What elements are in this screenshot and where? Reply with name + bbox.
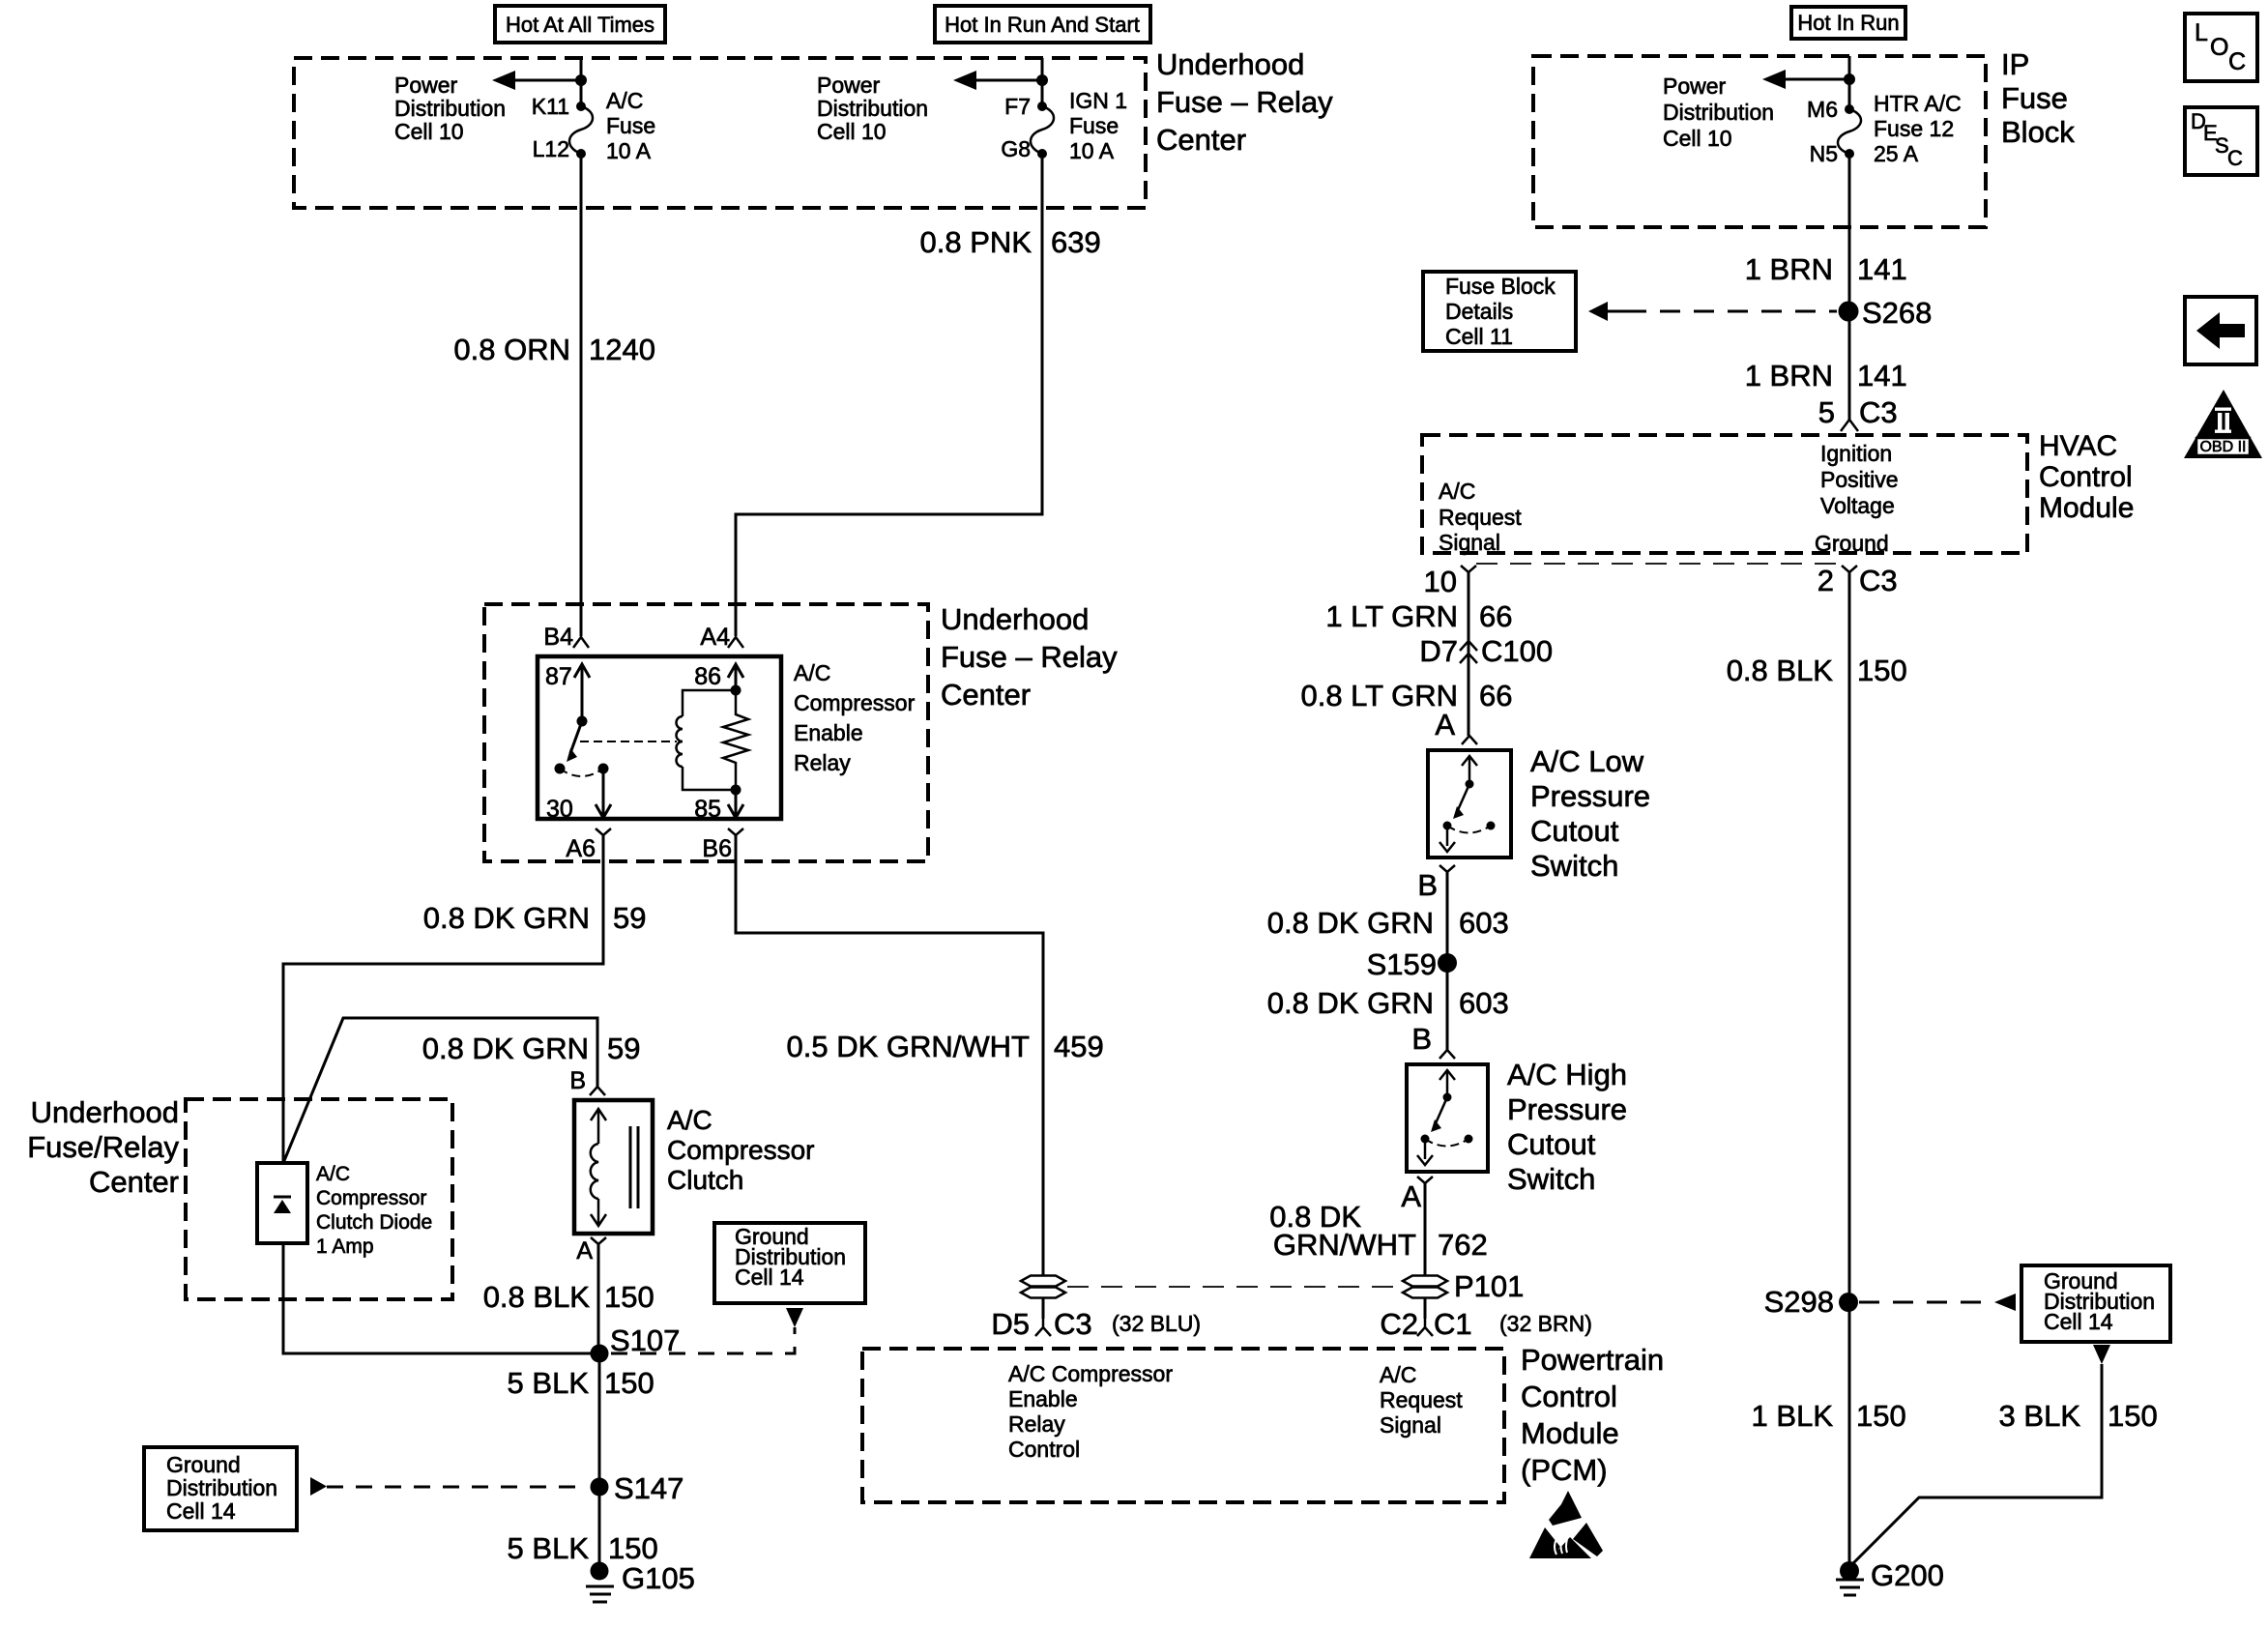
svg-text:Hot In Run: Hot In Run — [1797, 11, 1899, 35]
high switch interior — [1417, 1070, 1473, 1165]
wire 0.5 DK GRN/WHT 459 from B6 to D5 — [736, 835, 1043, 1275]
svg-text:C: C — [2227, 146, 2243, 170]
label A/C Compressor Clutch — [667, 1105, 814, 1195]
module box Underhood Fuse-Relay Center (dashed) — [294, 58, 1146, 208]
svg-text:Cutout: Cutout — [1507, 1127, 1596, 1161]
svg-text:C2: C2 — [1380, 1307, 1418, 1341]
dashed arrow S268 to fuse block details — [1588, 302, 1837, 321]
svg-text:Cell 10: Cell 10 — [817, 119, 887, 144]
wire from box top to fuse K11 — [580, 58, 583, 106]
wire 1 BRN 141 S268 to HVAC — [1745, 359, 1907, 392]
svg-text:Compressor: Compressor — [316, 1187, 426, 1209]
dashed wire S107 to ground distribution — [611, 1327, 795, 1353]
svg-text:A6: A6 — [566, 835, 596, 862]
svg-text:1 BRN: 1 BRN — [1745, 252, 1833, 286]
svg-text:0.8 DK GRN: 0.8 DK GRN — [1267, 986, 1434, 1020]
switch S2 A/C High Pressure Cutout Switch box — [1407, 1064, 1488, 1172]
svg-text:A/C Compressor: A/C Compressor — [1008, 1361, 1173, 1386]
svg-text:A/C: A/C — [1380, 1362, 1416, 1387]
diode symbol — [274, 1197, 291, 1213]
wire 0.8 BLK 150 HVAC pin2 to S298 — [1848, 572, 1851, 1571]
label A/C Low Pressure Cutout Switch — [1530, 744, 1650, 883]
pin label A/C Compressor Enable Relay Control — [1008, 1361, 1173, 1462]
svg-text:10 A: 10 A — [1069, 138, 1115, 163]
dashed wire S298 to ground distribution — [1859, 1294, 2016, 1311]
wire 0.8 DK GRN/WHT 762 to P101 — [1424, 1183, 1427, 1275]
svg-text:Cutout: Cutout — [1530, 814, 1619, 848]
connector pin A6 — [566, 829, 611, 862]
svg-text:Positive: Positive — [1820, 467, 1899, 492]
svg-text:C: C — [2228, 48, 2246, 75]
svg-text:C100: C100 — [1481, 634, 1553, 668]
clutch plates — [630, 1126, 638, 1208]
svg-text:59: 59 — [607, 1032, 640, 1065]
svg-text:HTR A/C: HTR A/C — [1874, 91, 1962, 116]
clutch M1 A/C Compressor Clutch box — [574, 1100, 653, 1234]
module box HVAC Control Module (dashed) — [1422, 435, 2027, 553]
svg-text:1 BRN: 1 BRN — [1745, 359, 1833, 392]
svg-text:2: 2 — [1817, 564, 1834, 597]
svg-text:Details: Details — [1445, 299, 1513, 324]
svg-text:Cell 14: Cell 14 — [735, 1265, 804, 1290]
fuse A/C Fuse 10A (K11/L12) — [532, 88, 655, 163]
wire diode to S107 — [283, 1243, 599, 1353]
wire 0.8 BLK 150 clutch to S107 — [597, 1244, 600, 1353]
node S147 — [591, 1471, 684, 1505]
svg-text:Clutch: Clutch — [667, 1165, 743, 1195]
svg-text:A4: A4 — [700, 624, 730, 651]
svg-text:Distribution: Distribution — [1663, 100, 1774, 125]
ground G105 — [586, 1561, 695, 1602]
relay switch armature — [555, 716, 609, 777]
svg-text:0.8 BLK: 0.8 BLK — [1727, 654, 1834, 687]
svg-text:Request: Request — [1380, 1387, 1463, 1412]
ground G200 — [1836, 1558, 1944, 1595]
wire arrow to Power Distribution (IP) — [1780, 78, 1849, 81]
svg-text:N5: N5 — [1810, 141, 1838, 166]
svg-text:Power: Power — [1663, 73, 1727, 99]
diode D1 A/C Compressor Clutch Diode box — [257, 1163, 307, 1243]
svg-text:Cell 11: Cell 11 — [1445, 324, 1513, 349]
svg-text:0.8 DK GRN: 0.8 DK GRN — [423, 901, 590, 935]
svg-text:P101: P101 — [1454, 1269, 1524, 1303]
label Underhood Fuse/Relay Center — [27, 1095, 179, 1199]
svg-text:Signal: Signal — [1380, 1412, 1441, 1438]
connector pin B4 — [543, 624, 589, 651]
svg-text:59: 59 — [613, 901, 646, 935]
svg-text:0.5 DK GRN/WHT: 0.5 DK GRN/WHT — [787, 1030, 1031, 1063]
arrow from ground distribution box down (right) — [2093, 1345, 2110, 1364]
label A/C Compressor Enable Relay — [794, 660, 916, 775]
arrow from ground distribution box down — [786, 1308, 803, 1327]
label HVAC Control Module — [2039, 430, 2134, 524]
clutch coil with arrows — [591, 1109, 606, 1226]
svg-text:Cell 14: Cell 14 — [166, 1498, 236, 1524]
svg-text:Control: Control — [2039, 461, 2133, 493]
connector pin B6 — [702, 829, 743, 862]
label Power Distribution Cell 10 — [394, 73, 506, 144]
svg-text:Fuse – Relay: Fuse – Relay — [941, 640, 1118, 674]
svg-text:Underhood: Underhood — [31, 1095, 179, 1129]
module box IP Fuse Block (dashed) — [1533, 56, 1986, 227]
svg-text:Distribution: Distribution — [166, 1475, 277, 1500]
svg-text:762: 762 — [1438, 1228, 1488, 1262]
svg-text:B4: B4 — [543, 624, 573, 651]
switch S1 A/C Low Pressure Cutout Switch box — [1428, 750, 1511, 858]
relay pin 86 arrow — [694, 663, 743, 690]
fuse IGN 1 Fuse 10A (F7/G8) — [1001, 88, 1127, 163]
svg-text:C3: C3 — [1859, 395, 1898, 429]
svg-text:C1: C1 — [1434, 1307, 1472, 1341]
node S159 — [1367, 947, 1457, 981]
pin label Ignition Positive Voltage / Ground — [1815, 441, 1899, 556]
svg-text:(PCM): (PCM) — [1521, 1453, 1608, 1487]
svg-text:GRN/WHT: GRN/WHT — [1273, 1228, 1416, 1262]
svg-text:Hot At All Times: Hot At All Times — [506, 13, 654, 37]
svg-text:A: A — [1401, 1179, 1421, 1213]
label Powertrain Control Module (PCM) — [1521, 1343, 1664, 1487]
wire 0.8 ORN 1240 from L12 to relay B4 — [580, 154, 583, 636]
svg-text:B: B — [1411, 1022, 1432, 1056]
label A/C Compressor Clutch Diode 1 Amp — [316, 1163, 432, 1258]
svg-text:Control: Control — [1521, 1380, 1617, 1413]
connector pin 2 C3 — [1817, 564, 1898, 597]
svg-text:0.8 DK GRN: 0.8 DK GRN — [422, 1032, 589, 1065]
ground distribution box (left-bottom of clutch) — [714, 1223, 865, 1303]
label box Hot In Run — [1791, 7, 1905, 39]
svg-text:Underhood: Underhood — [941, 602, 1089, 636]
label IP Fuse Block — [2001, 47, 2075, 149]
legend icon back-arrow box — [2185, 297, 2256, 364]
connector pin 5 C3 — [1818, 395, 1898, 431]
wire from box top to fuse F7 — [1041, 58, 1044, 106]
svg-text:86: 86 — [694, 663, 721, 690]
svg-text:Request: Request — [1439, 505, 1522, 530]
grommet P101 — [1403, 1269, 1524, 1303]
svg-text:IP: IP — [2001, 47, 2029, 81]
wire 5 BLK 150 S147 to G105 — [598, 1487, 601, 1571]
svg-text:150: 150 — [604, 1366, 654, 1400]
svg-text:Hot In Run And Start: Hot In Run And Start — [945, 13, 1140, 37]
wire arrow to Power Distribution 2 — [963, 79, 1042, 82]
ground distribution box (far left) — [144, 1447, 297, 1530]
svg-text:Center: Center — [89, 1165, 179, 1199]
svg-text:Compressor: Compressor — [667, 1135, 814, 1165]
connector D7 C100 — [1419, 634, 1553, 668]
wire branch diode to clutch B — [283, 1018, 597, 1163]
wire 1 LT GRN 66 from pin 10 — [1468, 572, 1470, 736]
svg-text:10: 10 — [1424, 565, 1457, 598]
svg-text:Module: Module — [1521, 1416, 1619, 1450]
svg-text:B6: B6 — [702, 835, 732, 862]
svg-text:L12: L12 — [533, 136, 569, 161]
connector pin 10 — [1424, 565, 1476, 598]
legend icon DESC box — [2185, 107, 2257, 175]
svg-text:Cell 10: Cell 10 — [1663, 126, 1732, 151]
svg-text:Fuse 12: Fuse 12 — [1874, 116, 1954, 141]
svg-text:A/C High: A/C High — [1507, 1058, 1627, 1091]
svg-text:Pressure: Pressure — [1507, 1092, 1627, 1126]
wire 0.8 DK GRN 603 to S159 — [1446, 872, 1449, 1050]
ground distribution box (right) — [2021, 1265, 2170, 1342]
svg-text:Ground: Ground — [166, 1452, 241, 1477]
svg-text:66: 66 — [1479, 599, 1512, 633]
svg-text:Pressure: Pressure — [1530, 779, 1650, 813]
svg-text:0.8 BLK: 0.8 BLK — [483, 1280, 591, 1314]
connector pin A (clutch) — [576, 1237, 606, 1265]
module box Powertrain Control Module (dashed) — [862, 1349, 1504, 1502]
svg-text:0.8 ORN: 0.8 ORN — [453, 333, 570, 366]
svg-text:1240: 1240 — [589, 333, 655, 366]
fuse HTR A/C Fuse 12 25A (M6/N5) — [1807, 91, 1962, 166]
svg-text:Compressor: Compressor — [794, 690, 916, 715]
wire 0.8 LT GRN 66 — [1300, 679, 1512, 712]
label Underhood Fuse-Relay Center — [1156, 47, 1333, 157]
svg-text:1 BLK: 1 BLK — [1752, 1399, 1834, 1433]
svg-text:Ignition: Ignition — [1820, 441, 1892, 466]
svg-text:A/C: A/C — [794, 660, 830, 685]
wire 5 BLK 150 S107 to S147 — [598, 1353, 601, 1487]
relay U1 A/C Compressor Enable Relay box — [538, 656, 781, 819]
connector pin B (high switch) — [1411, 1022, 1455, 1059]
svg-text:639: 639 — [1051, 225, 1101, 259]
pin label A/C Request Signal (PCM) — [1380, 1362, 1463, 1438]
pin label A/C Request Signal (HVAC) — [1439, 479, 1522, 555]
legend icon LOC box — [2185, 14, 2257, 81]
svg-text:(32 BRN): (32 BRN) — [1499, 1311, 1592, 1336]
svg-text:HVAC: HVAC — [2039, 430, 2117, 462]
svg-text:Center: Center — [1156, 123, 1246, 157]
svg-text:Center: Center — [941, 678, 1031, 712]
svg-text:B: B — [1417, 868, 1438, 902]
svg-text:C3: C3 — [1859, 564, 1898, 597]
svg-text:(32 BLU): (32 BLU) — [1112, 1311, 1201, 1336]
connector pin A4 — [700, 624, 743, 651]
label Power Distribution Cell 10 (2) — [817, 73, 928, 144]
module box Underhood Fuse-Relay Center around relay (dashed) — [484, 604, 928, 861]
svg-text:141: 141 — [1857, 252, 1907, 286]
svg-text:S298: S298 — [1764, 1285, 1834, 1319]
svg-text:G200: G200 — [1871, 1558, 1944, 1592]
svg-text:S147: S147 — [614, 1471, 683, 1505]
connector pin B (low switch) — [1417, 865, 1455, 902]
svg-text:Control: Control — [1008, 1437, 1080, 1462]
svg-text:C3: C3 — [1054, 1307, 1092, 1341]
svg-text:Switch: Switch — [1507, 1162, 1595, 1196]
svg-text:Cell 10: Cell 10 — [394, 119, 464, 144]
svg-text:Module: Module — [2039, 492, 2134, 524]
svg-text:B: B — [569, 1067, 586, 1094]
label Power Distribution Cell 10 (IP) — [1663, 73, 1774, 151]
svg-text:S159: S159 — [1367, 947, 1437, 981]
fuse block details box — [1423, 272, 1576, 351]
svg-text:Voltage: Voltage — [1820, 493, 1895, 518]
grommet pass-through (left) — [1021, 1276, 1065, 1298]
svg-text:Cell 14: Cell 14 — [2044, 1309, 2113, 1334]
wire below grommet to PCM D5 — [1042, 1298, 1045, 1319]
label Underhood Fuse-Relay Center (relay) — [941, 602, 1118, 712]
label box Hot In Run And Start — [935, 6, 1150, 43]
relay pin 87 arrow — [545, 663, 590, 721]
relay resistor — [723, 690, 748, 790]
svg-text:Fuse: Fuse — [1069, 113, 1119, 138]
wire 3 BLK 150 to G200 — [1849, 1364, 2102, 1567]
svg-text:603: 603 — [1459, 906, 1509, 940]
relay coil — [677, 685, 741, 796]
svg-text:Power: Power — [394, 73, 458, 98]
svg-text:Relay: Relay — [1008, 1411, 1065, 1437]
svg-text:0.8 PNK: 0.8 PNK — [920, 225, 1032, 259]
svg-text:Underhood: Underhood — [1156, 47, 1304, 81]
svg-text:D5: D5 — [991, 1307, 1030, 1341]
low switch interior — [1439, 756, 1496, 852]
svg-text:603: 603 — [1459, 986, 1509, 1020]
wire arrow to Power Distribution — [502, 79, 581, 82]
svg-text:G8: G8 — [1001, 136, 1031, 161]
wire 0.8 DK GRN 603 to high switch — [1267, 986, 1509, 1020]
svg-text:25 A: 25 A — [1874, 141, 1919, 166]
ESD sensitivity symbol — [1529, 1491, 1603, 1558]
svg-text:Power: Power — [817, 73, 881, 98]
wire from box top to fuse M6 — [1848, 56, 1851, 109]
svg-text:M6: M6 — [1807, 97, 1838, 122]
svg-text:A/C: A/C — [1439, 479, 1475, 504]
svg-text:66: 66 — [1479, 679, 1512, 712]
svg-text:F7: F7 — [1004, 94, 1031, 119]
svg-text:1 Amp: 1 Amp — [316, 1236, 374, 1258]
svg-text:Clutch Diode: Clutch Diode — [316, 1211, 432, 1234]
svg-text:85: 85 — [694, 796, 721, 823]
svg-text:5 BLK: 5 BLK — [508, 1366, 590, 1400]
node junction at arrow — [575, 74, 587, 86]
wire 0.8 DK GRN 59 from A6 — [283, 835, 603, 1163]
wire 1 BRN 141 to S268 — [1848, 154, 1851, 420]
svg-text:A: A — [1435, 708, 1455, 741]
connector pin D5 C3 — [991, 1307, 1201, 1341]
svg-text:1 LT GRN: 1 LT GRN — [1325, 599, 1458, 633]
svg-text:Signal: Signal — [1439, 530, 1500, 555]
svg-text:30: 30 — [546, 796, 573, 823]
svg-text:Relay: Relay — [794, 750, 851, 775]
svg-text:150: 150 — [1857, 654, 1907, 687]
relay pin 85 arrow — [694, 790, 743, 823]
svg-text:5 BLK: 5 BLK — [508, 1531, 590, 1565]
dashed wire to S147 — [327, 1486, 588, 1489]
node S107 — [591, 1323, 681, 1363]
svg-text:150: 150 — [604, 1280, 654, 1314]
svg-text:Enable: Enable — [794, 720, 863, 745]
svg-text:A/C: A/C — [316, 1163, 350, 1185]
node S298 — [1764, 1285, 1858, 1319]
module box Underhood Fuse/Relay Center (diode, dashed) — [186, 1099, 452, 1299]
svg-text:Ground: Ground — [1815, 531, 1889, 556]
svg-text:150: 150 — [2108, 1399, 2158, 1433]
wire below P101 to PCM C1 — [1424, 1298, 1427, 1319]
svg-text:Fuse: Fuse — [2001, 81, 2068, 115]
node S268 — [1839, 296, 1933, 330]
svg-text:Powertrain: Powertrain — [1521, 1343, 1664, 1377]
svg-text:Switch: Switch — [1530, 849, 1618, 883]
svg-text:G105: G105 — [622, 1561, 695, 1595]
svg-text:Fuse/Relay: Fuse/Relay — [27, 1130, 179, 1164]
label A/C High Pressure Cutout Switch — [1507, 1058, 1627, 1196]
relay pin 30 arrow — [546, 769, 611, 823]
connector pin A (high switch) — [1401, 1177, 1433, 1213]
svg-text:O: O — [2210, 34, 2228, 61]
svg-text:Distribution: Distribution — [394, 96, 506, 121]
relay internal dashed link — [580, 741, 677, 742]
svg-text:150: 150 — [608, 1531, 658, 1565]
wire 0.8 PNK 639 from G8 to relay A4 — [736, 154, 1042, 636]
legend icon OBD II triangle — [2184, 390, 2262, 458]
wire 1 BLK 150 S298 to G200 — [1752, 1399, 1906, 1433]
svg-text:87: 87 — [545, 663, 572, 690]
svg-text:OBD II: OBD II — [2199, 439, 2246, 455]
svg-text:A/C Low: A/C Low — [1530, 744, 1644, 778]
svg-text:Fuse Block: Fuse Block — [1445, 274, 1556, 299]
svg-text:A: A — [576, 1237, 593, 1265]
svg-text:10 A: 10 A — [606, 138, 652, 163]
svg-text:Enable: Enable — [1008, 1386, 1078, 1411]
thin dashed link pin10-pin2 — [1476, 563, 1842, 565]
svg-text:IGN 1: IGN 1 — [1069, 88, 1127, 113]
svg-text:L: L — [2195, 19, 2208, 46]
svg-text:0.8 DK GRN: 0.8 DK GRN — [1267, 906, 1434, 940]
svg-text:A/C: A/C — [667, 1105, 712, 1135]
connector pin A (low switch) — [1435, 708, 1477, 744]
svg-text:5: 5 — [1818, 395, 1835, 429]
node junction at arrow 2 — [1036, 74, 1048, 86]
svg-text:Fuse – Relay: Fuse – Relay — [1156, 85, 1333, 119]
svg-text:459: 459 — [1054, 1030, 1104, 1063]
svg-text:D7: D7 — [1419, 634, 1458, 668]
svg-text:A/C: A/C — [606, 88, 643, 113]
connector pin B (clutch) — [569, 1067, 605, 1095]
arrow from ground distribution box (right-pointing) — [310, 1477, 327, 1496]
svg-text:3 BLK: 3 BLK — [1999, 1399, 2081, 1433]
thin dashed link between grommets — [1067, 1286, 1402, 1288]
svg-text:Distribution: Distribution — [817, 96, 928, 121]
svg-text:K11: K11 — [532, 94, 569, 119]
node junction at arrow (IP) — [1844, 73, 1855, 85]
label box Hot At All Times — [495, 6, 665, 43]
svg-text:Block: Block — [2001, 115, 2075, 149]
svg-text:Fuse: Fuse — [606, 113, 655, 138]
svg-text:150: 150 — [1856, 1399, 1906, 1433]
svg-text:S268: S268 — [1862, 296, 1932, 330]
svg-text:141: 141 — [1857, 359, 1907, 392]
connector pin C2 C1 — [1380, 1307, 1592, 1341]
